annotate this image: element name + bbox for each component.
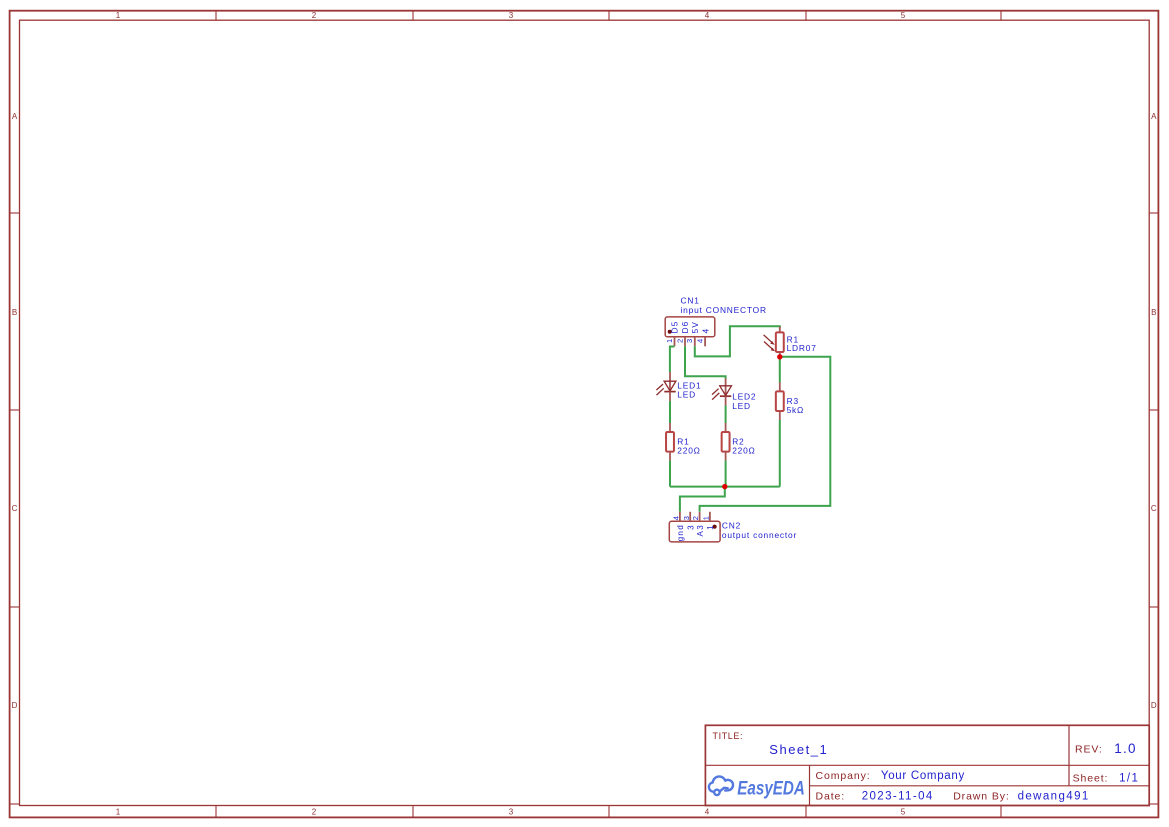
- svg-text:B: B: [12, 308, 17, 317]
- svg-text:C: C: [12, 504, 18, 513]
- svg-text:5: 5: [901, 11, 906, 20]
- CN1 pin 2: [684, 337, 686, 347]
- CN1 pin 4: [704, 337, 706, 347]
- svg-text:Date:: Date:: [816, 791, 846, 803]
- svg-text:dewang491: dewang491: [1018, 791, 1090, 803]
- wire LED1 to R1: [669, 401, 671, 423]
- junction bottom: [722, 484, 727, 489]
- CN2 pin 1: [709, 512, 711, 522]
- CN2 pin 4: [679, 512, 681, 522]
- photoresistor R1 LDR07: [764, 327, 784, 357]
- svg-text:gnd: gnd: [676, 524, 685, 541]
- svg-text:3: 3: [685, 339, 694, 343]
- svg-text:Your Company: Your Company: [881, 770, 965, 782]
- wire CN1 pin3 to LDR top: [695, 326, 780, 356]
- LDR R1 labels: [787, 334, 817, 353]
- wire R3 bottom: [779, 420, 781, 487]
- svg-text:Sheet_1: Sheet_1: [769, 742, 828, 757]
- wire R2 bottom: [725, 461, 727, 487]
- CN1 pin 3: [694, 337, 696, 347]
- R1 labels: [677, 437, 700, 456]
- svg-text:CN2: CN2: [722, 521, 741, 531]
- connector CN2: [669, 521, 720, 542]
- svg-text:B: B: [1151, 308, 1156, 317]
- svg-text:A3: A3: [696, 524, 705, 537]
- svg-text:1: 1: [116, 808, 121, 817]
- svg-text:2: 2: [691, 516, 700, 520]
- svg-text:220Ω: 220Ω: [732, 446, 755, 456]
- svg-text:Sheet:: Sheet:: [1073, 773, 1109, 785]
- wire junction to CN2 pin4: [680, 487, 725, 512]
- svg-text:D5: D5: [671, 320, 680, 333]
- svg-text:1: 1: [665, 339, 674, 343]
- svg-text:output connector: output connector: [722, 530, 797, 540]
- svg-text:D: D: [12, 701, 18, 710]
- svg-text:3: 3: [509, 808, 514, 817]
- CN2 pin 3: [689, 512, 691, 522]
- wire LDR junction right down to CN2 pin2: [700, 357, 831, 512]
- wire bottom horizontal: [670, 486, 780, 488]
- svg-text:TITLE:: TITLE:: [713, 731, 744, 741]
- svg-text:220Ω: 220Ω: [677, 446, 700, 456]
- svg-text:5kΩ: 5kΩ: [787, 405, 805, 415]
- wire CN1 pin1 to LED1: [670, 347, 675, 373]
- wire LED2 to R2: [725, 406, 727, 424]
- CN1 reference label: [681, 296, 767, 316]
- svg-text:1: 1: [702, 516, 711, 520]
- svg-text:2: 2: [675, 339, 684, 343]
- svg-text:D: D: [1151, 701, 1157, 710]
- svg-text:1: 1: [706, 524, 715, 530]
- svg-text:Drawn By:: Drawn By:: [953, 791, 1010, 803]
- svg-text:LDR07: LDR07: [787, 343, 817, 353]
- svg-text:input CONNECTOR: input CONNECTOR: [681, 305, 767, 315]
- resistor R1: [666, 423, 674, 461]
- svg-text:D6: D6: [681, 320, 690, 333]
- svg-text:3: 3: [509, 11, 514, 20]
- wire LDR junction to R3: [779, 357, 781, 383]
- svg-text:EasyEDA: EasyEDA: [737, 777, 805, 799]
- svg-text:A: A: [12, 112, 18, 121]
- junction below LDR: [777, 354, 782, 359]
- svg-text:4: 4: [705, 808, 710, 817]
- R3 labels: [787, 396, 805, 415]
- svg-text:CN1: CN1: [681, 296, 700, 306]
- LED1 labels: [677, 381, 701, 400]
- svg-text:LED: LED: [732, 401, 751, 411]
- connector CN1: [665, 317, 715, 337]
- svg-text:2023-11-04: 2023-11-04: [862, 791, 934, 803]
- svg-text:3: 3: [686, 524, 695, 530]
- svg-text:4: 4: [705, 11, 710, 20]
- LED2 labels: [732, 392, 756, 411]
- svg-text:1: 1: [116, 11, 121, 20]
- wire CN1 pin2 to LED2: [685, 346, 726, 378]
- svg-text:3: 3: [682, 516, 691, 520]
- resistor R2: [722, 423, 730, 461]
- svg-text:4: 4: [701, 328, 710, 334]
- svg-text:LED: LED: [677, 390, 696, 400]
- svg-text:1/1: 1/1: [1119, 773, 1139, 785]
- resistor R3: [776, 382, 784, 420]
- svg-text:C: C: [1151, 504, 1157, 513]
- svg-text:1.0: 1.0: [1114, 741, 1136, 756]
- svg-text:A: A: [1151, 112, 1157, 121]
- CN2 reference label: [722, 521, 797, 541]
- svg-text:5: 5: [901, 808, 906, 817]
- svg-text:REV:: REV:: [1075, 744, 1103, 756]
- svg-text:2: 2: [312, 11, 317, 20]
- svg-text:4: 4: [672, 516, 681, 520]
- R2 labels: [732, 437, 755, 456]
- CN2 pin 2: [699, 512, 701, 522]
- svg-text:2: 2: [312, 808, 317, 817]
- svg-text:Company:: Company:: [816, 770, 871, 782]
- svg-text:5V: 5V: [691, 321, 700, 334]
- CN1 pin 1: [674, 337, 676, 347]
- LED1: [656, 372, 676, 401]
- LED2: [712, 379, 732, 406]
- svg-text:4: 4: [696, 339, 705, 343]
- wire R1 bottom: [669, 461, 671, 487]
